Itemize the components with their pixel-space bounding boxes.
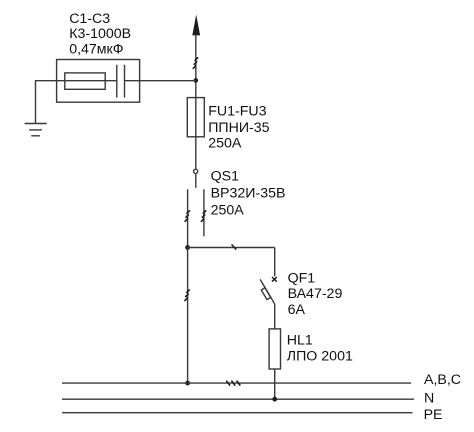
svg-text:QF1: QF1 [288,271,316,287]
capacitor C1-C3 plates [117,65,125,98]
node: junction of capacitor branch with feeder [194,78,199,83]
circuit breaker QF1 fixed contact (x) [272,277,277,282]
node: junction on A,B,C bus [185,381,190,386]
wire: vertical main to A,B,C bus [187,248,189,384]
svg-text:0,47мкФ: 0,47мкФ [69,42,123,58]
conductor-count slash on QF1 branch (1 wire) [232,244,237,249]
svg-text:6А: 6А [288,302,306,318]
wire: horizontal branch to QF1 [188,247,275,249]
wire: lamp HL1 to N bus [274,369,276,399]
svg-text:РЕ: РЕ [424,407,443,423]
svg-text:QS1: QS1 [211,168,239,184]
fuse FU1-FU3 body [187,98,204,137]
switch QS1 pivot contact [194,169,198,173]
capacitor C1-C3 assembly enclosure box [57,60,140,103]
wire: QS1 right conductor [203,189,205,236]
wire: fuse to switch QS1 [195,137,197,169]
svg-text:ППНИ-35: ППНИ-35 [208,120,269,136]
svg-text:К3-1000В: К3-1000В [69,26,131,42]
conductor-count slashes on feeder (3 wires) [193,57,198,69]
wire: QF1 to lamp HL1 [274,304,276,329]
switch QS1 blade stub [195,174,197,188]
conductor-count slashes on vertical main (3 wires) [184,290,189,302]
svg-text:ВА47-29: ВА47-29 [288,286,343,302]
svg-text:А,В,С: А,В,С [424,372,461,388]
svg-text:С1-С3: С1-С3 [69,11,110,27]
conductor-count slashes on A,B,C bus (3 wires) [226,381,240,386]
wire: capacitor branch horizontal (node to capacitor plates) [125,80,196,82]
circuit breaker QF1 release rectangle [261,288,271,300]
circuit breaker QF1 blade [260,279,274,303]
svg-text:HL1: HL1 [287,333,313,349]
bus N [62,398,414,400]
svg-text:FU1-FU3: FU1-FU3 [208,104,266,120]
resistor (discharge resistor inside C1-C3 box) [65,73,105,89]
supply arrow (incoming feeder) [192,15,200,36]
bus PE [62,412,413,414]
svg-text:ЛПО 2001: ЛПО 2001 [287,349,353,365]
ground [25,124,47,136]
wire: drop to ground [35,80,37,123]
svg-text:250А: 250А [208,136,242,152]
wire: capacitor branch horizontal (plates to ground drop) [36,80,117,82]
bus A,B,C [62,382,411,384]
node: tee to QF1 branch [185,245,190,250]
svg-text:N: N [424,390,434,406]
conductor-count slashes on QS1 right conductor [201,210,206,222]
node: lamp junction on N bus [272,397,277,402]
lamp HL1 body [269,329,280,369]
wire: main vertical feeder from arrow to fuse [195,34,197,97]
conductor-count slashes on QS1 left conductor [185,210,190,222]
wire: QF1 branch drop [274,248,276,277]
wire: QS1 left conductor [187,189,189,247]
svg-text:250А: 250А [211,202,245,218]
svg-text:ВР32И-35В: ВР32И-35В [211,185,286,201]
